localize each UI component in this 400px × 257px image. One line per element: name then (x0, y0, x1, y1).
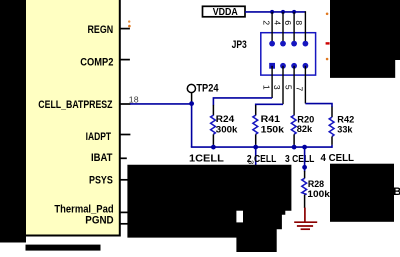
resistor R41 (253, 115, 258, 134)
svg-text:18: 18 (129, 94, 139, 104)
JP3 top row pins 2 4 6 8 (269, 41, 275, 47)
svg-text:6: 6 (283, 20, 293, 25)
svg-text:100k: 100k (307, 189, 330, 200)
svg-text:2 CELL: 2 CELL (247, 153, 277, 165)
svg-text:4 CELL: 4 CELL (321, 152, 355, 164)
IC U? body (battery charger IC, partially cropped) (8, 0, 120, 236)
redaction right block (330, 164, 394, 222)
resistor R28 (304, 171, 306, 179)
svg-text:IBAT: IBAT (91, 152, 113, 164)
svg-text:B: B (393, 186, 400, 198)
wire VDDA horizontal (245, 11, 305, 13)
svg-text:82k: 82k (297, 124, 313, 135)
wire R28 bottom (304, 195, 306, 209)
white notch in middle redaction (236, 211, 243, 223)
svg-text:8: 8 (294, 20, 304, 25)
wire cell bus horizontal (191, 146, 332, 148)
wire junction down to cell bus (191, 104, 193, 147)
svg-text:R41: R41 (261, 114, 281, 125)
svg-text:TP24: TP24 (196, 83, 219, 95)
power symbol VDDA box (203, 6, 246, 16)
test point TP24 circle (187, 84, 195, 92)
pin COMP2 stub (119, 59, 130, 61)
pin IBAT stub (119, 157, 127, 159)
svg-text:4: 4 (272, 20, 282, 25)
svg-text:PSYS: PSYS (89, 175, 113, 187)
svg-text:300k: 300k (216, 125, 238, 136)
svg-text:CELL_BATPRESZ: CELL_BATPRESZ (38, 99, 112, 111)
svg-text:PGND: PGND (85, 214, 113, 226)
svg-text:1: 1 (261, 85, 271, 90)
wire JP3 pin7 to R42 top (305, 104, 332, 107)
svg-text:1CELL: 1CELL (189, 153, 224, 165)
svg-text:COMP2: COMP2 (80, 57, 113, 69)
resistor R42 (329, 117, 334, 136)
junction node R28 top (302, 165, 307, 170)
pin PSYS stub (119, 179, 130, 181)
JP3 bottom pin leads (271, 66, 273, 98)
resistor R20 (291, 115, 296, 134)
junction node CELL_BATPRESZ (189, 101, 194, 106)
wire JP3 pin3 to R41 top (256, 104, 283, 105)
svg-text:JP3: JP3 (232, 39, 247, 51)
svg-text:2: 2 (262, 20, 272, 25)
test point TP24 stem (191, 93, 193, 103)
pin REGN stub (119, 28, 130, 30)
svg-text:REGN: REGN (88, 24, 114, 36)
wire JP3 pin1 to R24 top (213, 98, 272, 105)
junction dots on VDDA wire (270, 10, 274, 14)
redaction top-right block (330, 0, 400, 78)
svg-text:IADPT: IADPT (86, 131, 112, 143)
pin IADPT stub (119, 134, 130, 136)
svg-text:33k: 33k (337, 125, 353, 136)
wire drops to JP3 top pins (271, 12, 273, 44)
JP3 bottom row pins 3 5 7 (280, 63, 286, 69)
pin CELL_BATPRESZ stub (119, 103, 131, 105)
ground symbol (294, 208, 317, 230)
svg-text:3 CELL: 3 CELL (285, 153, 315, 165)
redaction middle block (127, 165, 291, 252)
svg-text:150k: 150k (261, 125, 285, 136)
svg-text:3: 3 (272, 85, 282, 90)
wire CELL_BATPRESZ to junction (130, 103, 192, 105)
pin REGN orange marks (128, 20, 130, 22)
JP3 bottom row pin 1 (square) (269, 63, 275, 69)
red wire stub at redaction edge (326, 42, 330, 44)
junction dots on cell bus (211, 145, 216, 150)
connector JP3 box (261, 33, 316, 75)
svg-text:R24: R24 (216, 114, 235, 125)
wire bus to R28 junction (304, 147, 306, 171)
svg-text:5: 5 (283, 85, 293, 90)
pin PGND stub (119, 223, 129, 225)
wire R41 column down into hidden area (255, 147, 257, 167)
resistor R24 (211, 115, 216, 134)
redaction left strip (0, 0, 26, 243)
redaction bottom-left bar (26, 245, 101, 251)
orange marks near redaction edge (326, 13, 329, 16)
svg-text:7: 7 (294, 87, 304, 92)
pin Thermal_Pad stub (119, 211, 129, 213)
svg-text:VDDA: VDDA (213, 7, 238, 18)
